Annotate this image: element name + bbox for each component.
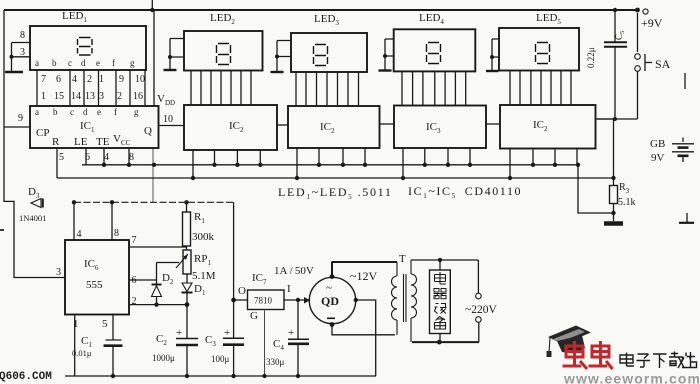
svg-text:LED1~LED5 .5011: LED1~LED5 .5011 xyxy=(278,185,393,201)
svg-text:Q606.COM: Q606.COM xyxy=(0,371,52,383)
pin numbers LED1 row xyxy=(41,74,145,85)
resistor R1 300k xyxy=(183,202,215,250)
svg-text:D3: D3 xyxy=(28,186,40,200)
glyph qi xyxy=(434,289,447,299)
capacitor C5 0.22u xyxy=(586,8,627,119)
logo text char xia xyxy=(653,354,667,368)
wires LED3 to IC3 xyxy=(296,72,359,106)
svg-text:b: b xyxy=(52,58,57,68)
timer IC6 555 xyxy=(65,240,129,315)
svg-text:e: e xyxy=(97,107,101,117)
svg-text:~: ~ xyxy=(326,282,332,294)
svg-text:GB: GB xyxy=(650,138,665,150)
svg-text:5: 5 xyxy=(102,318,108,330)
svg-text:c: c xyxy=(70,107,74,117)
display LED4 xyxy=(394,12,476,71)
svg-text:IC2: IC2 xyxy=(533,119,548,133)
svg-text:www.eeworm.com: www.eeworm.com xyxy=(563,371,700,384)
svg-text:g: g xyxy=(130,58,135,68)
glyph dian xyxy=(435,272,447,284)
svg-text:b: b xyxy=(53,107,58,117)
pin 7 of 555 xyxy=(129,235,187,247)
bridge rectifier QD xyxy=(309,277,355,323)
pin letters a-g LED1 xyxy=(35,58,135,68)
counter IC5 xyxy=(500,105,596,149)
svg-text:10: 10 xyxy=(163,114,173,125)
pin 4 of 555 xyxy=(74,202,82,240)
svg-text:1A / 50V: 1A / 50V xyxy=(274,265,314,277)
stray mark left edge xyxy=(0,229,4,231)
IC5 bottom pins xyxy=(508,148,577,180)
wire QD right to ground rail xyxy=(354,298,376,376)
svg-text:~220V: ~220V xyxy=(465,304,497,316)
wire 7810 input to QD xyxy=(284,297,310,304)
svg-text:3: 3 xyxy=(99,91,104,102)
svg-text:f: f xyxy=(112,58,115,68)
svg-text:c: c xyxy=(68,58,72,68)
wire transformer primary top to 220V xyxy=(411,258,478,293)
svg-text:LE: LE xyxy=(74,136,88,148)
wire QD top AC to transformer xyxy=(330,262,397,279)
svg-text:O: O xyxy=(238,285,246,297)
wire carry IC2 to IC3 xyxy=(277,124,288,126)
logo text char zhan xyxy=(682,352,697,368)
svg-text:100μ: 100μ xyxy=(211,354,230,364)
svg-text:1: 1 xyxy=(73,318,79,330)
diode D3 1N4001 xyxy=(19,186,46,223)
svg-text:R1: R1 xyxy=(194,211,205,225)
svg-text:1N4001: 1N4001 xyxy=(19,213,46,223)
svg-text:LED1: LED1 xyxy=(62,10,87,24)
wire 555 supply line xyxy=(72,200,234,204)
svg-text:SA: SA xyxy=(655,57,671,71)
svg-text:8: 8 xyxy=(20,30,25,41)
svg-text:1: 1 xyxy=(99,74,104,85)
svg-text:C4: C4 xyxy=(273,338,284,352)
pin 1 of 555 xyxy=(73,315,79,377)
diode D1 xyxy=(182,274,206,305)
svg-text:14: 14 xyxy=(71,91,81,102)
pin 8 of 555 xyxy=(112,202,119,240)
svg-text:RP1: RP1 xyxy=(194,253,211,267)
svg-text:1: 1 xyxy=(41,91,46,102)
svg-text:IC6: IC6 xyxy=(84,258,99,272)
ground pins LED4 xyxy=(379,39,394,71)
svg-text:+9V: +9V xyxy=(641,16,663,30)
svg-text:555: 555 xyxy=(86,279,103,291)
svg-text:5.1k: 5.1k xyxy=(618,197,636,208)
svg-text:IC3: IC3 xyxy=(426,121,441,135)
wire carry IC4 to IC5 xyxy=(486,123,499,125)
svg-text:CP: CP xyxy=(36,127,49,139)
svg-text:f: f xyxy=(114,107,117,117)
svg-text:d: d xyxy=(81,58,86,68)
svg-text:~12V: ~12V xyxy=(350,269,377,283)
battery GB 9V xyxy=(650,138,694,165)
svg-text:D2: D2 xyxy=(162,272,174,286)
svg-text:a: a xyxy=(35,107,39,117)
wires LED1 to IC1 xyxy=(37,70,145,106)
counter IC2 xyxy=(184,105,277,150)
wires LED5 to IC5 xyxy=(510,71,571,106)
wires LED4 to IC4 xyxy=(402,71,466,105)
ground symbol right xyxy=(679,213,694,223)
7-segment glyph LED1 xyxy=(78,38,93,56)
svg-text:D1: D1 xyxy=(194,283,206,297)
logo text char zai xyxy=(669,352,684,369)
svg-text:T: T xyxy=(399,253,406,265)
svg-text:4: 4 xyxy=(72,74,77,85)
svg-text:6: 6 xyxy=(56,74,61,85)
svg-text:0.01μ: 0.01μ xyxy=(72,348,92,358)
svg-text:2: 2 xyxy=(87,74,92,85)
svg-text:300k: 300k xyxy=(192,231,215,243)
ground pins LED5 xyxy=(486,39,499,71)
svg-text:LED4: LED4 xyxy=(419,12,444,26)
capacitor C4 330u xyxy=(266,300,309,378)
svg-text:0.22μ: 0.22μ xyxy=(586,47,596,68)
svg-text:C2: C2 xyxy=(156,333,167,347)
svg-text:R: R xyxy=(52,136,60,148)
node +9V terminal xyxy=(635,8,663,30)
7-segment glyph LED5 xyxy=(536,43,550,64)
wire QD bottom AC to transformer xyxy=(330,322,395,335)
svg-text:1000μ: 1000μ xyxy=(152,353,175,363)
svg-text:IC1~IC5 CD40110: IC1~IC5 CD40110 xyxy=(408,184,522,200)
svg-text:+: + xyxy=(288,327,294,339)
pin numbers IC1 row xyxy=(41,91,143,102)
wire left rail from top rail down to D3 xyxy=(4,10,65,278)
display LED3 xyxy=(291,13,367,72)
svg-text:10: 10 xyxy=(135,74,145,85)
svg-text:9V: 9V xyxy=(651,152,665,164)
wire SA node to VDD feed xyxy=(597,117,638,180)
svg-text:3: 3 xyxy=(56,267,61,278)
svg-text:TE: TE xyxy=(96,136,110,148)
pin 2 of 555 xyxy=(129,296,189,307)
wires LED2 to IC2 xyxy=(191,71,251,106)
wire top +9V rail xyxy=(4,0,638,12)
diode D2 xyxy=(152,263,180,305)
svg-text:C1: C1 xyxy=(81,335,92,349)
pin 6 of 555 xyxy=(129,275,157,286)
svg-text:g: g xyxy=(134,107,139,117)
node 220V terminals xyxy=(465,293,497,322)
ground pins LED2 xyxy=(164,39,185,71)
IC2 bottom pins xyxy=(191,150,263,180)
display LED2 xyxy=(184,12,263,71)
ground pins LED3 xyxy=(271,41,292,73)
svg-text:9: 9 xyxy=(18,113,23,124)
svg-text:QD: QD xyxy=(321,294,339,308)
svg-text:R3: R3 xyxy=(619,182,630,195)
capacitor C3 100u xyxy=(205,327,244,378)
wire upper supply rail xyxy=(82,163,616,216)
logo text char dian xyxy=(620,353,634,367)
pin 5 of 555 xyxy=(102,315,113,340)
load box appliance xyxy=(430,260,451,342)
svg-text:VCC: VCC xyxy=(113,133,131,147)
display LED1 xyxy=(30,10,146,70)
svg-text:7: 7 xyxy=(132,235,137,246)
svg-text:8: 8 xyxy=(129,152,134,163)
svg-text:5.1M: 5.1M xyxy=(192,270,216,282)
glyph she xyxy=(435,304,447,314)
svg-text:15: 15 xyxy=(54,91,64,102)
svg-text:C3: C3 xyxy=(205,334,216,348)
svg-text:7: 7 xyxy=(41,74,46,85)
svg-text:IC7: IC7 xyxy=(252,272,267,286)
wire lower supply rail xyxy=(57,177,614,179)
potentiometer RP1 5.1M xyxy=(176,250,216,282)
svg-text:4: 4 xyxy=(77,229,82,240)
7-segment glyph LED3 xyxy=(314,45,328,66)
logo graduation cap xyxy=(547,326,592,358)
glyph bei xyxy=(435,317,446,330)
svg-text:2: 2 xyxy=(132,296,137,307)
svg-text:2: 2 xyxy=(117,91,122,102)
svg-text:Q: Q xyxy=(144,125,152,137)
svg-text:LED5: LED5 xyxy=(536,12,561,26)
node Q pin 10 to IC2 xyxy=(159,114,185,126)
svg-text:6: 6 xyxy=(85,152,90,163)
svg-text:330μ: 330μ xyxy=(266,357,285,367)
regulator IC7 7810 xyxy=(234,265,314,378)
wire transformer primary bottom to 220V xyxy=(412,322,479,344)
wire R1 top to 7810 output branch xyxy=(231,202,236,338)
wire bottom ground rail xyxy=(65,375,376,377)
7-segment glyph LED2 xyxy=(217,44,231,65)
svg-text:+: + xyxy=(176,327,182,339)
counter IC3 xyxy=(288,106,380,148)
svg-text:e: e xyxy=(96,58,100,68)
svg-text:16: 16 xyxy=(133,91,143,102)
display LED5 xyxy=(499,12,579,71)
IC1 bottom pins R LE TE Vcc xyxy=(57,148,134,178)
node CP pin 9 xyxy=(4,113,30,127)
wire carry IC3 to IC4 xyxy=(380,123,395,125)
svg-text:5: 5 xyxy=(59,152,64,163)
ground below R3 xyxy=(604,213,623,224)
IC4 bottom pins xyxy=(401,148,472,180)
stray mark right edge xyxy=(684,73,686,89)
svg-text:LED3: LED3 xyxy=(314,13,339,27)
IC3 bottom pins xyxy=(295,148,367,180)
logo text char zi xyxy=(637,354,651,367)
svg-text:4: 4 xyxy=(104,152,109,163)
wire VDD vertical rail xyxy=(152,10,156,202)
svg-text:a: a xyxy=(35,58,39,68)
svg-text:d: d xyxy=(83,107,88,117)
logo char chong 1 xyxy=(563,341,588,369)
svg-text:+: + xyxy=(224,327,230,339)
wire IC5 carry out to SA node xyxy=(596,118,614,120)
svg-text:LED2: LED2 xyxy=(210,12,235,26)
counter IC1 xyxy=(30,106,159,148)
ground pins 8,3 of LED1 xyxy=(5,30,30,72)
logo char chong 2 xyxy=(589,341,613,369)
svg-text:8: 8 xyxy=(114,228,119,239)
svg-text:13: 13 xyxy=(85,91,95,102)
capacitor C1 0.01u xyxy=(72,335,123,378)
svg-text:I: I xyxy=(287,283,291,295)
svg-text:IC2: IC2 xyxy=(229,120,244,134)
svg-text:G: G xyxy=(250,310,258,322)
svg-text:C5: C5 xyxy=(614,31,626,40)
7-segment glyph LED4 xyxy=(427,43,441,64)
counter IC4 xyxy=(394,106,486,149)
svg-text:IC1: IC1 xyxy=(80,120,95,134)
svg-text:VDD: VDD xyxy=(157,93,175,107)
resistor R3 5.1k xyxy=(610,178,636,213)
capacitor C2 1000u xyxy=(152,305,198,379)
switch SA xyxy=(635,13,671,119)
svg-text:IC2: IC2 xyxy=(320,121,335,135)
svg-text:9: 9 xyxy=(119,74,124,85)
svg-text:7810: 7810 xyxy=(254,296,273,306)
transformer T xyxy=(392,253,417,342)
